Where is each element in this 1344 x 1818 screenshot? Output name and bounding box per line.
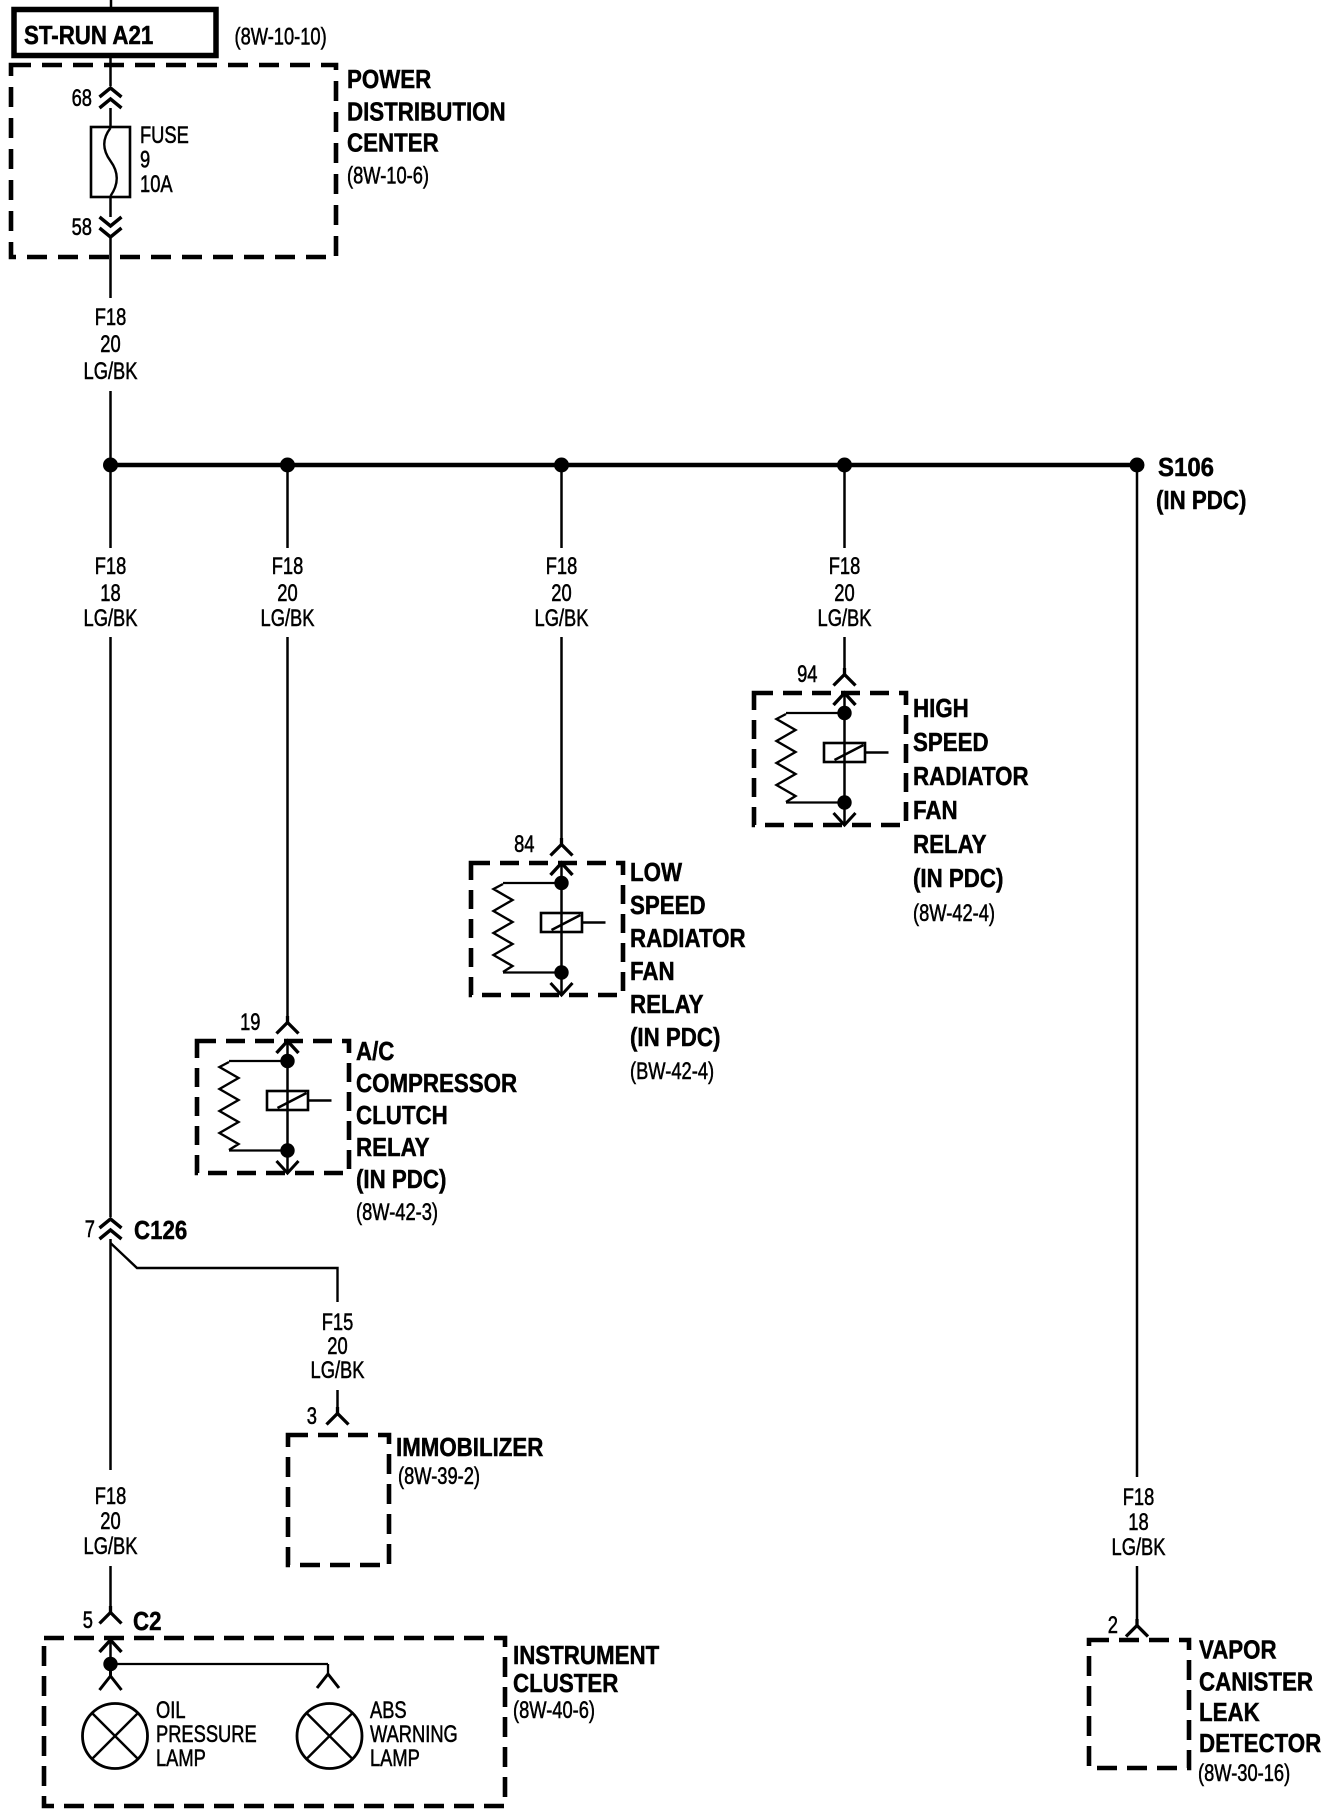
svg-text:LG/BK: LG/BK [1112,1534,1166,1561]
svg-text:LG/BK: LG/BK [261,605,315,632]
svg-text:LG/BK: LG/BK [84,605,138,632]
svg-text:RELAY: RELAY [630,989,704,1019]
svg-text:F18: F18 [272,553,304,580]
svg-text:(8W-39-2): (8W-39-2) [398,1463,480,1490]
svg-text:18: 18 [100,580,120,607]
svg-text:84: 84 [514,831,534,858]
svg-text:SPEED: SPEED [630,890,706,920]
svg-text:20: 20 [100,1508,120,1535]
svg-text:DISTRIBUTION: DISTRIBUTION [347,97,506,127]
svg-text:FUSE: FUSE [140,122,189,149]
svg-text:(8W-42-4): (8W-42-4) [913,900,995,927]
svg-text:LG/BK: LG/BK [84,358,138,385]
svg-text:F18: F18 [95,553,127,580]
svg-text:(8W-30-16): (8W-30-16) [1198,1760,1290,1787]
svg-text:5: 5 [83,1607,93,1634]
svg-text:SPEED: SPEED [913,727,989,757]
svg-text:(IN PDC): (IN PDC) [1156,485,1246,515]
svg-text:(8W-42-3): (8W-42-3) [356,1199,438,1226]
svg-text:VAPOR: VAPOR [1199,1635,1277,1665]
svg-text:F18: F18 [95,304,127,331]
svg-text:(IN PDC): (IN PDC) [913,863,1003,893]
svg-text:(IN PDC): (IN PDC) [630,1022,720,1052]
svg-text:C126: C126 [134,1215,187,1245]
svg-text:18: 18 [1128,1509,1148,1536]
svg-text:10A: 10A [140,171,173,198]
svg-text:RELAY: RELAY [356,1132,430,1162]
svg-text:RADIATOR: RADIATOR [913,761,1029,791]
svg-text:F15: F15 [322,1309,354,1336]
svg-text:(8W-10-6): (8W-10-6) [347,163,429,190]
svg-text:(IN PDC): (IN PDC) [356,1164,446,1194]
svg-text:LG/BK: LG/BK [311,1357,365,1384]
svg-text:CLUTCH: CLUTCH [356,1100,448,1130]
svg-text:20: 20 [834,580,854,607]
svg-text:68: 68 [72,85,92,112]
svg-text:CENTER: CENTER [347,128,439,158]
svg-text:20: 20 [551,580,571,607]
svg-text:19: 19 [240,1009,260,1036]
svg-text:OIL: OIL [156,1697,186,1724]
svg-text:HIGH: HIGH [913,693,969,723]
svg-text:F18: F18 [829,553,861,580]
svg-text:58: 58 [72,214,92,241]
svg-text:LAMP: LAMP [370,1745,420,1772]
svg-text:RELAY: RELAY [913,829,987,859]
svg-text:LG/BK: LG/BK [84,1533,138,1560]
svg-text:LG/BK: LG/BK [535,605,589,632]
svg-text:PRESSURE: PRESSURE [156,1721,257,1748]
svg-text:20: 20 [327,1333,347,1360]
svg-text:WARNING: WARNING [370,1721,458,1748]
svg-text:INSTRUMENT: INSTRUMENT [513,1640,659,1670]
svg-text:CANISTER: CANISTER [1199,1667,1313,1697]
svg-text:CLUSTER: CLUSTER [513,1668,618,1698]
svg-text:ST-RUN A21: ST-RUN A21 [24,20,153,50]
svg-text:(8W-10-10): (8W-10-10) [235,24,327,51]
svg-text:RADIATOR: RADIATOR [630,923,746,953]
svg-text:94: 94 [797,661,817,688]
svg-text:9: 9 [140,147,150,174]
svg-text:LG/BK: LG/BK [818,605,872,632]
svg-text:20: 20 [100,331,120,358]
svg-text:3: 3 [307,1403,317,1430]
svg-text:C2: C2 [133,1606,162,1636]
svg-text:FAN: FAN [630,956,675,986]
svg-text:S106: S106 [1158,452,1214,482]
svg-text:ABS: ABS [370,1697,407,1724]
svg-text:LOW: LOW [630,857,682,887]
svg-text:LEAK: LEAK [1199,1697,1260,1727]
svg-text:POWER: POWER [347,64,431,94]
svg-text:F18: F18 [1123,1484,1155,1511]
svg-text:COMPRESSOR: COMPRESSOR [356,1068,517,1098]
svg-text:A/C: A/C [356,1036,395,1066]
svg-text:(8W-40-6): (8W-40-6) [513,1697,595,1724]
svg-text:F18: F18 [546,553,578,580]
svg-text:(BW-42-4): (BW-42-4) [630,1058,714,1085]
svg-text:FAN: FAN [913,795,958,825]
svg-text:20: 20 [277,580,297,607]
svg-text:F18: F18 [95,1483,127,1510]
svg-text:DETECTOR: DETECTOR [1199,1728,1321,1758]
svg-text:2: 2 [1108,1612,1118,1639]
svg-text:IMMOBILIZER: IMMOBILIZER [396,1432,544,1462]
svg-text:7: 7 [85,1216,95,1243]
svg-text:LAMP: LAMP [156,1745,206,1772]
